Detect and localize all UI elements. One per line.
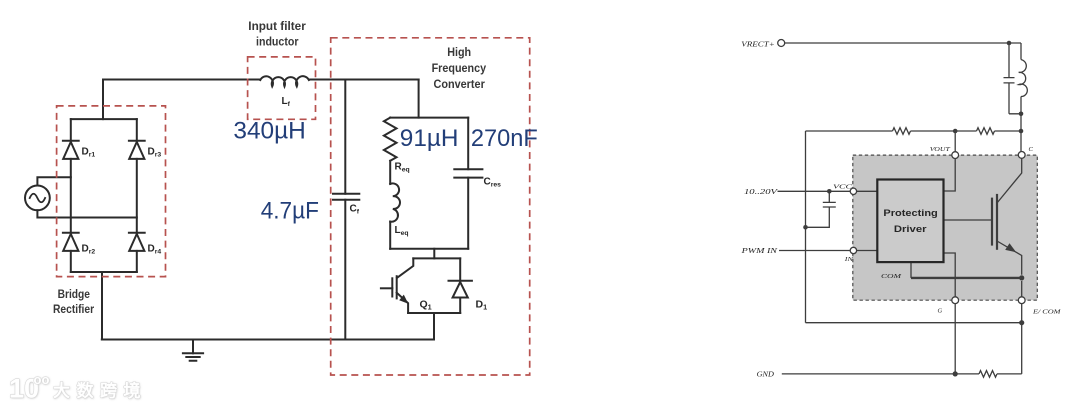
svg-text:VOUT: VOUT [930, 146, 950, 153]
wire cap branch upper [1008, 43, 1010, 78]
node main-VOUT junction [953, 129, 958, 134]
wire bridge right leg lower [136, 251, 138, 272]
diode D1 triangle [453, 282, 468, 298]
inductor Lf coil [260, 76, 309, 86]
wire loop top [390, 117, 468, 119]
input filter inductor dashed box [248, 57, 316, 119]
ac source V1 circle [25, 186, 50, 211]
node vcc cap junction [827, 189, 832, 194]
wire return bottom [806, 322, 1022, 324]
wire Cf branch lower [344, 200, 346, 340]
node rail cap junction [803, 225, 808, 230]
transistor module IGBT gate bar [991, 198, 993, 246]
node main-C junction [1019, 129, 1024, 134]
svg-text:340µH: 340µH [233, 117, 305, 144]
wire COM thick [911, 277, 1022, 279]
wire Cres branch lower [467, 178, 469, 249]
wire IN inside [857, 250, 877, 252]
junction dots [803, 41, 1024, 377]
svg-text:VRECT+: VRECT+ [741, 40, 775, 49]
diode Dr1 cathode bar [63, 140, 79, 142]
bridge rectifier dashed box [57, 106, 166, 277]
driver block Protecting Driver [877, 180, 943, 263]
svg-text:270nF: 270nF [471, 125, 538, 152]
svg-text:91µH: 91µH [400, 125, 459, 152]
capacitor Cres [454, 169, 482, 177]
ac source V1 sine [30, 194, 45, 203]
terminal C [1018, 152, 1025, 159]
wire Q1/D1 bottom [408, 312, 460, 314]
wire Q1/D1 top [413, 257, 460, 259]
wire vcc cap lower [806, 207, 830, 227]
right circuit labels [740, 40, 1061, 379]
ground stub [192, 340, 194, 354]
wire block bottom stub [910, 262, 912, 278]
wire top rail right [309, 79, 419, 81]
wire bottom rail [102, 339, 434, 341]
diode Dr2 triangle [63, 234, 78, 251]
wire PWM IN to IN [779, 250, 850, 252]
svg-text:Frequency: Frequency [432, 61, 487, 75]
node top cap junction [1007, 41, 1012, 46]
transistor Q1 gate bar [391, 278, 393, 296]
wire bridge right leg upper [136, 119, 138, 141]
inductor top-right coil [1019, 60, 1028, 97]
capacitor Cf [333, 194, 359, 200]
svg-text:Converter: Converter [434, 77, 486, 91]
wire LC bottom join [1009, 114, 1021, 131]
svg-text:Rectifier: Rectifier [53, 302, 94, 316]
wire between Req and Leq [389, 161, 391, 184]
wire E/COM below [1021, 281, 1023, 297]
ground bars [183, 353, 203, 360]
diode Dr3 triangle [129, 142, 144, 159]
wire D1 branch upper [459, 258, 461, 280]
wire Cres branch upper [467, 118, 469, 170]
wire VOUT elbow [944, 159, 956, 192]
resistor R3 [979, 371, 997, 378]
wire VOUT drop [954, 131, 956, 152]
wire loop bottom feed [433, 249, 435, 259]
wire converter feed [418, 80, 420, 118]
wire Q1 bottom feed [433, 313, 435, 340]
transistor Q1 gate lead [381, 287, 392, 289]
capacitor C top-right [1004, 78, 1015, 83]
wire top rail left [103, 80, 259, 120]
wire E/COM to return [1021, 304, 1023, 374]
wire emitter [997, 241, 1022, 275]
wire loop bottom [390, 248, 468, 250]
wire collector [997, 158, 1022, 203]
svg-text:VCC: VCC [833, 184, 853, 191]
diode D1 cathode bar [449, 280, 472, 282]
svg-text:IN: IN [844, 256, 854, 263]
transistor Q1 channel bar [396, 276, 398, 298]
wire gate lead [944, 219, 993, 221]
svg-text:PWM IN: PWM IN [740, 246, 778, 255]
wire 10-20V to VCC [778, 190, 851, 192]
wire cap branch lower [1008, 83, 1010, 114]
terminal E/COM [1018, 297, 1025, 304]
svg-text:Input filter: Input filter [248, 19, 306, 33]
wire main line mid [911, 130, 977, 132]
svg-text:10..20V: 10..20V [744, 187, 779, 196]
terminal G [952, 297, 959, 304]
wire left rail [805, 131, 807, 323]
svg-text:G: G [938, 308, 943, 315]
terminal VOUT [952, 152, 959, 159]
terminal VRECT+ [778, 40, 785, 47]
wire main line right [995, 130, 1022, 132]
resistor R2 [977, 128, 995, 135]
node return junction [1019, 320, 1024, 325]
terminal VCC [850, 188, 856, 194]
wire C drop [1020, 131, 1022, 151]
transistor module IGBT channel bar [996, 194, 998, 250]
svg-text:inductor: inductor [256, 35, 299, 49]
wire Cf branch upper [344, 80, 346, 194]
wire below Leq [389, 222, 391, 249]
diode Dr4 cathode bar [129, 232, 145, 234]
transistor Q1 collector [397, 258, 413, 277]
diode Dr4 triangle [129, 234, 144, 251]
wire bridge left leg lower [70, 251, 72, 272]
svg-text:Protecting: Protecting [883, 208, 937, 218]
wire D1 branch lower [459, 298, 461, 314]
svg-text:GND: GND [757, 370, 775, 379]
terminal circles [778, 40, 1025, 304]
capacitor vcc bypass [823, 202, 836, 207]
transistor Q1 emitter arrow [399, 295, 408, 304]
svg-text:大数跨境: 大数跨境 [53, 381, 147, 401]
high frequency converter dashed box [331, 38, 530, 375]
wire bridge right leg middle [136, 159, 138, 233]
svg-text:COM: COM [881, 273, 902, 280]
wire coil branch lower [1020, 97, 1022, 114]
svg-text:Bridge: Bridge [58, 287, 91, 301]
wire bridge left leg middle [70, 159, 72, 233]
wire bridge bottom feed [101, 272, 103, 340]
driver module gray box [853, 155, 1038, 300]
diode Dr3 cathode bar [129, 140, 145, 142]
emitter arrow [1005, 243, 1016, 252]
diode Dr1 triangle [63, 142, 78, 159]
wire vrect top rail [785, 42, 1021, 44]
resistor R1 [893, 128, 911, 135]
node emitter COM junction [1019, 275, 1024, 280]
svg-text:Driver: Driver [894, 224, 927, 234]
wire gnd line left [782, 373, 979, 375]
wire G to gnd [954, 304, 956, 374]
terminal IN [850, 247, 856, 253]
transistor Q1 emitter [397, 293, 408, 313]
svg-text:E/ COM: E/ COM [1032, 309, 1061, 316]
wire bridge left leg upper [70, 119, 72, 141]
node LC bottom junction [1019, 112, 1024, 117]
wire VCC inside [857, 190, 877, 192]
wire gnd line right [997, 373, 1022, 375]
wire ac top terminal [37, 177, 70, 185]
wire main line left [806, 130, 893, 132]
svg-text:High: High [447, 45, 471, 59]
svg-text:C: C [1029, 146, 1034, 153]
diode Dr2 cathode bar [63, 232, 79, 234]
svg-text:4.7µF: 4.7µF [261, 198, 319, 225]
wire bridge bottom [71, 271, 137, 273]
wire ac bottom terminal [37, 210, 136, 217]
wire coil branch upper [1020, 43, 1022, 60]
svg-text:oo: oo [34, 372, 50, 387]
wire G elbow [944, 253, 956, 297]
node gnd junction [953, 371, 958, 376]
resistor Req [384, 118, 397, 161]
wire bridge top [71, 118, 137, 120]
wire vcc cap upper [828, 191, 830, 202]
inductor Leq [390, 183, 400, 221]
